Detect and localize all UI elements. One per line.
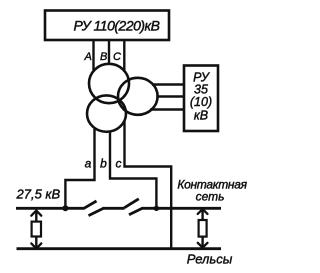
svg-text:А: А bbox=[83, 51, 91, 63]
svg-text:В: В bbox=[100, 51, 107, 63]
svg-text:кВ: кВ bbox=[194, 108, 208, 122]
svg-text:b: b bbox=[100, 157, 107, 171]
svg-text:С: С bbox=[113, 51, 121, 63]
svg-text:Рельсы: Рельсы bbox=[187, 252, 233, 267]
svg-text:сеть: сеть bbox=[196, 189, 225, 203]
svg-text:(10): (10) bbox=[190, 95, 212, 109]
svg-text:a: a bbox=[85, 157, 92, 171]
svg-text:c: c bbox=[116, 157, 122, 171]
svg-text:27,5 кВ: 27,5 кВ bbox=[16, 187, 61, 202]
svg-text:РУ 110(220)кВ: РУ 110(220)кВ bbox=[74, 18, 160, 34]
